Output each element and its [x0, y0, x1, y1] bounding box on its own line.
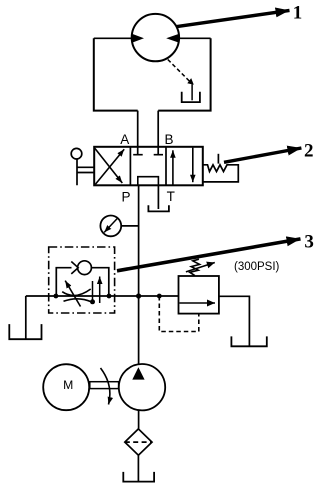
- svg-text:M: M: [63, 378, 73, 392]
- svg-text:(300PSI): (300PSI): [234, 261, 280, 273]
- svg-text:P: P: [122, 189, 131, 204]
- svg-text:2: 2: [304, 141, 314, 162]
- svg-text:B: B: [165, 132, 174, 147]
- svg-text:3: 3: [304, 232, 314, 253]
- svg-text:T: T: [167, 189, 175, 204]
- svg-text:1: 1: [293, 3, 303, 24]
- svg-text:A: A: [120, 132, 129, 147]
